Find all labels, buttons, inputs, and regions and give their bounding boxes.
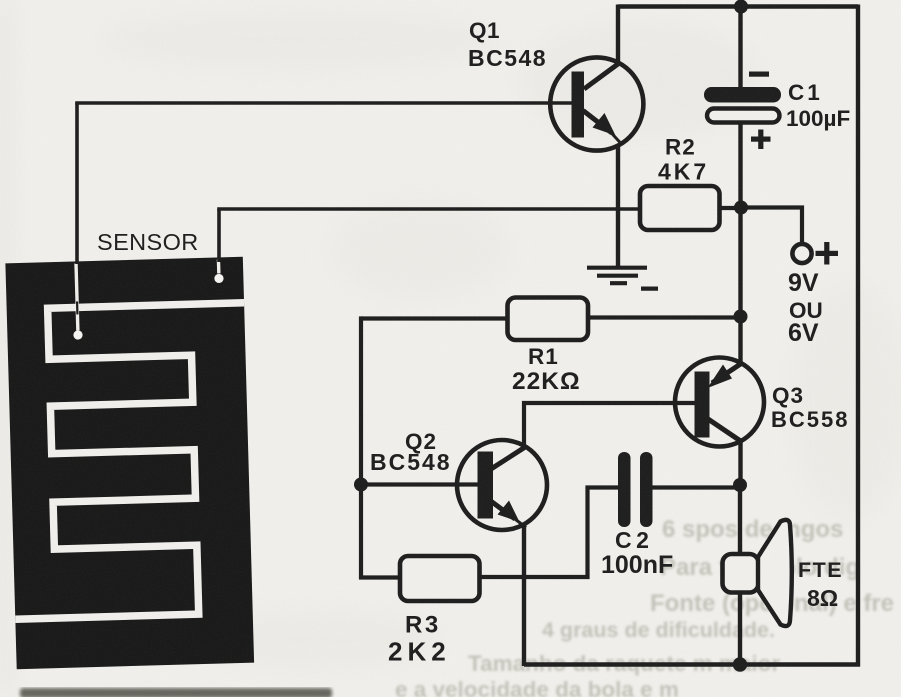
speaker FTE xyxy=(723,520,792,626)
wire: node to battery terminal xyxy=(741,208,802,246)
wire: node to R1 vertical xyxy=(738,206,742,318)
wire: sensor left to Q1 base (vertical) xyxy=(75,103,79,264)
wire: V+ rail top xyxy=(618,4,858,9)
wire: Q2 emitter down xyxy=(522,526,526,666)
resistor R2 xyxy=(640,186,720,230)
wire: R3 right to C2 xyxy=(480,488,620,578)
transistor Q2 BC548 xyxy=(457,440,547,530)
wire: Q1 collector up xyxy=(616,5,620,65)
sensor plate xyxy=(5,257,254,669)
node: sensor right contact xyxy=(214,274,223,283)
wire: sensor right vertical xyxy=(217,209,221,262)
wire: C2 right to node xyxy=(653,485,743,489)
wire: right rail vertical xyxy=(856,5,860,667)
wire: R1 left xyxy=(361,316,508,320)
node junction at R2/C1 xyxy=(734,201,748,215)
battery terminal 9V xyxy=(792,242,838,265)
wire over sensor (right contact) xyxy=(217,259,221,273)
wire: R1 right to node xyxy=(588,315,741,319)
wire: Q1 emitter down to ground xyxy=(616,145,620,268)
wire: node to speaker xyxy=(738,484,742,556)
resistor R1 xyxy=(508,298,589,341)
ground xyxy=(587,268,658,289)
node junction at R1 right xyxy=(734,310,748,324)
wire: bottom rail xyxy=(524,662,860,666)
wire: Q1 base horizontal xyxy=(75,101,572,105)
node junction Q2 base xyxy=(354,478,368,492)
transistor Q3 BC558 xyxy=(675,358,764,447)
capacitor C2 xyxy=(618,452,653,527)
wire: left branch vertical xyxy=(359,316,363,579)
wire: Q3 base from Q2 collector xyxy=(524,403,696,448)
wire: speaker to bottom rail xyxy=(738,592,742,666)
wire: sensor right to R2 xyxy=(217,207,641,211)
wire: C1 top to rail xyxy=(738,5,742,89)
sensor serpentine track xyxy=(7,303,253,620)
node junction bottom rail xyxy=(733,657,747,671)
node junction Q3/C2/speaker xyxy=(733,478,747,492)
capacitor C1 xyxy=(704,72,781,150)
wire: Q3 emitter up xyxy=(738,315,742,365)
node: sensor left contact xyxy=(73,330,82,339)
wire: C1 bottom down xyxy=(738,122,742,209)
wire: R2 right to node xyxy=(720,206,742,210)
sensor body xyxy=(5,257,254,669)
faint dark band bottom-left xyxy=(20,688,332,697)
wire over sensor (left contact) xyxy=(76,263,78,330)
wire: Q2 base horizontal xyxy=(361,482,479,486)
wire: R3 left xyxy=(359,575,401,579)
resistor R3 xyxy=(400,556,480,601)
wire: Q3 collector down xyxy=(738,441,742,486)
transistor Q1 BC548 xyxy=(550,57,643,150)
node junction top rail xyxy=(734,0,748,14)
